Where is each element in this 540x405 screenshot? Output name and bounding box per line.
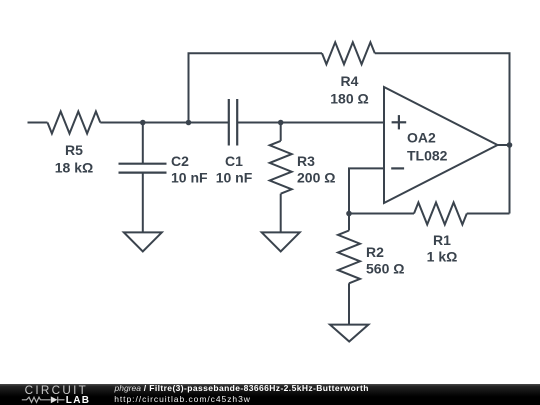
label C1 10 nF [216, 153, 253, 186]
node junction R1/R2 [346, 211, 352, 217]
svg-text:C2: C2 [171, 153, 189, 169]
CircuitLab footer bar [0, 384, 540, 405]
wire R4 to output [375, 53, 510, 145]
resistor R2 [338, 214, 360, 325]
ground for R3 [262, 232, 300, 251]
node junction C1/R3 [278, 120, 284, 126]
wire op-amp output [498, 144, 510, 146]
svg-text:R3: R3 [297, 153, 315, 169]
resistor R4 [322, 42, 375, 64]
wire minus input [349, 168, 384, 213]
footer url line 2 [114, 395, 251, 404]
label R4 180 Ohm [330, 73, 368, 107]
ground for R2 [330, 325, 368, 342]
svg-text:200 Ω: 200 Ω [297, 170, 335, 186]
svg-text:TL082: TL082 [407, 148, 448, 164]
wire R5 to C1 [100, 122, 229, 124]
node junction feedback tap [186, 120, 192, 126]
ground for C2 [124, 232, 162, 251]
svg-text:10 nF: 10 nF [171, 170, 208, 186]
svg-text:R1: R1 [433, 232, 451, 248]
label R3 200 Ohm [297, 153, 335, 186]
resistor R1 [349, 203, 510, 225]
svg-text:1 kΩ: 1 kΩ [427, 249, 458, 265]
label OA2 TL082 [407, 130, 448, 164]
svg-text:C1: C1 [225, 153, 243, 169]
svg-text:18 kΩ: 18 kΩ [55, 160, 93, 176]
svg-text:R5: R5 [65, 142, 83, 158]
resistor R3 [270, 123, 292, 233]
CircuitLab logo [0, 384, 110, 405]
wire output down [509, 145, 511, 214]
wire C1 node to op-amp plus [281, 122, 384, 124]
label R5 18 kOhm [55, 142, 93, 176]
resistor R5 [48, 112, 101, 134]
node junction R5/C2 [140, 120, 146, 126]
svg-text:LAB: LAB [66, 395, 90, 405]
svg-text:OA2: OA2 [407, 130, 436, 146]
op-amp OA2 [384, 87, 498, 203]
footer credit text line 1 [115, 384, 369, 393]
wire input [28, 122, 48, 124]
label R2 560 Ohm [366, 244, 404, 277]
capacitor C1 [229, 99, 281, 146]
label R1 1 kOhm [427, 232, 458, 265]
capacitor C2 [119, 123, 167, 233]
node junction output [507, 142, 513, 148]
svg-text:R4: R4 [341, 73, 359, 89]
svg-text:180 Ω: 180 Ω [330, 91, 368, 107]
label C2 10 nF [171, 153, 208, 186]
wire feedback up [189, 53, 323, 122]
svg-text:10 nF: 10 nF [216, 170, 253, 186]
svg-text:R2: R2 [366, 244, 384, 260]
svg-text:560 Ω: 560 Ω [366, 261, 404, 277]
